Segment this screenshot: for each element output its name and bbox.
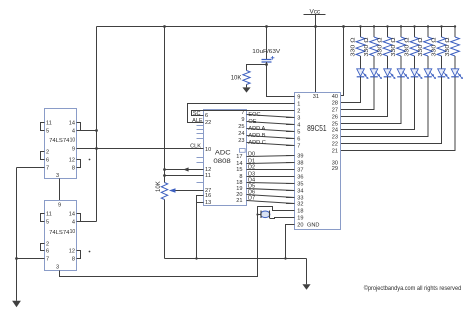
LED D6 xyxy=(424,69,436,79)
svg-text:19: 19 xyxy=(297,216,303,222)
wire D0: ADC to 89C51 pin 39 xyxy=(247,152,295,158)
wire rail to capacitor C1 xyxy=(265,25,268,59)
wire U2b pins 14/4 up to left loop vertical xyxy=(81,221,97,223)
svg-text:8: 8 xyxy=(72,166,75,172)
ground (below 10K reset resistor) xyxy=(242,85,250,93)
svg-text:11: 11 xyxy=(205,173,211,179)
wire U2b pin7 to ground xyxy=(15,257,44,260)
svg-text:4: 4 xyxy=(297,123,300,129)
svg-text:6: 6 xyxy=(297,137,300,143)
wire U1 pin7 to ground xyxy=(17,167,45,169)
svg-text:2: 2 xyxy=(46,242,49,248)
svg-text:14: 14 xyxy=(69,212,75,218)
wire ADD B: ADC to 89C51 pin 6 xyxy=(247,133,295,139)
power Vcc symbol xyxy=(304,9,326,16)
svg-text:10: 10 xyxy=(70,229,76,235)
wire CLK: U1 pin9 to ADC pin10 xyxy=(77,144,204,150)
svg-text:3: 3 xyxy=(297,116,300,122)
wire LED D6 to 89C51 pin 23 xyxy=(341,77,429,137)
svg-text:35: 35 xyxy=(297,182,303,188)
resistor R8 330 ohm xyxy=(445,37,460,57)
LED D8 xyxy=(451,69,463,79)
LED D7 xyxy=(438,69,450,79)
ADC U2 ADC0808 xyxy=(204,110,247,207)
svg-text:24: 24 xyxy=(238,131,244,137)
svg-text:10K: 10K xyxy=(231,76,242,82)
svg-text:22: 22 xyxy=(205,120,211,126)
wire 89C51 pin1 to ADC ALE (pin22) xyxy=(188,104,295,125)
wire U1 pins 14/4 to left loop vertical xyxy=(81,130,97,132)
svg-text:7: 7 xyxy=(46,257,49,263)
svg-text:74LS74: 74LS74 xyxy=(49,138,70,144)
svg-text:5: 5 xyxy=(297,130,300,136)
svg-text:10K: 10K xyxy=(156,181,162,192)
svg-text:4: 4 xyxy=(72,220,75,226)
svg-text:330 Ω: 330 Ω xyxy=(391,37,397,57)
resistor R9 10K xyxy=(231,71,250,85)
wire LED D8 to 89C51 pin 21 xyxy=(341,77,456,151)
svg-text:1: 1 xyxy=(297,102,300,108)
svg-text:©projectbandya.com all rights: ©projectbandya.com all rights reserved xyxy=(364,285,461,292)
svg-text:ADD B: ADD B xyxy=(248,133,265,139)
wire 89C51 pin19 to crystal right plate xyxy=(270,218,295,219)
svg-text:12: 12 xyxy=(69,249,75,255)
LED D1 xyxy=(357,69,369,79)
svg-text:GND: GND xyxy=(307,223,319,229)
wire LED D2 to 89C51 pin 27 xyxy=(341,77,375,110)
wire D4: ADC to 89C51 pin 35 xyxy=(247,178,295,184)
flip-flop U2b 74LS74 (lower) xyxy=(45,201,77,271)
svg-text:14: 14 xyxy=(69,121,75,127)
svg-text:36: 36 xyxy=(297,175,303,181)
wire ground rail xyxy=(165,257,307,259)
resistor R2 330 ohm xyxy=(364,37,379,57)
svg-text:330 Ω: 330 Ω xyxy=(364,37,370,57)
wire OE: ADC to 89C51 pin 4 xyxy=(247,119,295,125)
U1 pin brackets xyxy=(41,123,91,168)
wire resistor R6 to LED D6 xyxy=(427,56,429,69)
wire ADC pin11 to pot line xyxy=(163,174,203,177)
wire Vcc top rail xyxy=(97,26,456,28)
wire pot wiper arrow to ADC pin27 xyxy=(169,188,204,193)
svg-text:18: 18 xyxy=(297,209,303,215)
wire EOC: ADC to 89C51 pin 3 xyxy=(247,112,295,118)
wire rail to 89C51 pin 40 xyxy=(341,25,345,95)
wire ADC pin16 and pin13 to ground rail xyxy=(197,196,204,259)
wire ADD A: ADC to 89C51 pin 5 xyxy=(247,126,295,132)
svg-text:37: 37 xyxy=(297,168,303,174)
wire rail to resistor R4 column xyxy=(400,25,402,37)
svg-text:330 Ω: 330 Ω xyxy=(350,37,356,57)
wire left loop vertical (rail down to 74LS74s) xyxy=(95,27,98,222)
svg-text:10: 10 xyxy=(205,147,211,153)
wire U1 pin3 to U2 pin9 xyxy=(59,179,61,201)
svg-text:23: 23 xyxy=(332,135,338,141)
ground (bottom right) xyxy=(302,259,310,290)
svg-text:24: 24 xyxy=(332,128,338,134)
svg-text:SC: SC xyxy=(193,111,201,117)
svg-text:6: 6 xyxy=(46,249,49,255)
svg-text:29: 29 xyxy=(332,166,338,172)
svg-text:0808: 0808 xyxy=(213,158,231,165)
resistor R4 330 ohm xyxy=(391,37,406,57)
svg-text:CLK: CLK xyxy=(190,144,201,150)
svg-text:74LS74: 74LS74 xyxy=(49,230,70,236)
wire ADD C: ADC to 89C51 pin 7 xyxy=(247,140,295,146)
wire rail to resistor R7 column xyxy=(440,25,442,37)
wire D2: ADC to 89C51 pin 37 xyxy=(247,165,295,171)
svg-text:9: 9 xyxy=(72,147,75,153)
svg-text:D0: D0 xyxy=(248,152,255,158)
LED D2 xyxy=(370,69,382,79)
copyright text xyxy=(364,285,461,292)
svg-text:9: 9 xyxy=(241,117,244,123)
flip-flop U1 74LS74 (upper) xyxy=(45,109,77,180)
svg-text:31: 31 xyxy=(313,94,319,100)
svg-text:8: 8 xyxy=(72,257,75,263)
svg-text:21: 21 xyxy=(236,198,242,204)
svg-text:32: 32 xyxy=(297,202,303,208)
svg-text:15: 15 xyxy=(236,167,242,173)
wire rail to resistor R1 column xyxy=(359,25,361,37)
svg-text:9: 9 xyxy=(58,203,61,209)
89C51 left pin stubs xyxy=(286,97,295,225)
wire resistor R8 to LED D8 xyxy=(454,56,456,69)
crystal X1 xyxy=(261,211,270,219)
svg-text:16: 16 xyxy=(205,193,211,199)
svg-text:ADD A: ADD A xyxy=(248,126,265,132)
wire capacitor to 89C51 pin 9 (reset) xyxy=(265,62,294,97)
svg-text:27: 27 xyxy=(332,108,338,114)
wire 89C51 pin2 to ADC SC (pin6) xyxy=(192,111,295,117)
svg-text:20: 20 xyxy=(297,223,303,229)
resistor R1 330 ohm xyxy=(350,37,365,57)
svg-text:10: 10 xyxy=(70,137,76,143)
svg-text:26: 26 xyxy=(332,115,338,121)
svg-text:3: 3 xyxy=(56,173,59,179)
svg-text:34: 34 xyxy=(297,189,303,195)
wire rail to resistor R3 column xyxy=(386,25,388,37)
wire resistor R5 to LED D5 xyxy=(414,56,416,69)
wire resistor R4 to LED D4 xyxy=(400,56,402,69)
LED D4 xyxy=(397,69,409,79)
svg-text:17: 17 xyxy=(236,154,242,160)
svg-text:25: 25 xyxy=(238,124,244,130)
svg-text:5: 5 xyxy=(46,220,49,226)
svg-text:OE: OE xyxy=(248,119,256,125)
wire resistor R1 to LED D1 xyxy=(360,56,362,69)
wire rail to resistor R5 column xyxy=(413,25,415,37)
wire resistor R7 to LED D7 xyxy=(441,56,443,69)
svg-text:5: 5 xyxy=(46,129,49,135)
ADC0808 NC pin stubs (left) xyxy=(197,126,204,183)
wire resistor R3 to LED D3 xyxy=(387,56,389,69)
svg-text:ALE: ALE xyxy=(192,118,203,124)
LED D5 xyxy=(411,69,423,79)
svg-text:39: 39 xyxy=(297,154,303,160)
svg-text:11: 11 xyxy=(46,212,52,218)
svg-text:EOC: EOC xyxy=(248,112,260,118)
ADC0808 small blue stub box above D0 xyxy=(240,149,246,153)
wire D7: ADC to 89C51 pin 32 xyxy=(247,196,295,204)
svg-text:330 Ω: 330 Ω xyxy=(377,37,383,57)
svg-text:38: 38 xyxy=(297,161,303,167)
svg-text:330 Ω: 330 Ω xyxy=(418,37,424,57)
resistor R7 330 ohm xyxy=(431,37,446,57)
capacitor C1 10uF/63V xyxy=(252,49,280,62)
svg-text:330 Ω: 330 Ω xyxy=(431,37,437,57)
wire 89C51 pin20 GND to ground rail xyxy=(286,225,295,259)
wire rail to resistor R2 column xyxy=(373,25,375,37)
svg-text:10uF/63V: 10uF/63V xyxy=(252,49,280,55)
wire 89C51 pin18 around crystal down to U2b pin3 xyxy=(60,207,295,277)
svg-text:11: 11 xyxy=(46,121,52,127)
wire D1: ADC to 89C51 pin 38 xyxy=(247,159,295,165)
svg-text:7: 7 xyxy=(297,144,300,150)
wire LED D5 to 89C51 pin 24 xyxy=(341,77,415,130)
svg-text:22: 22 xyxy=(332,142,338,148)
wire crystal left plate to vertical xyxy=(256,213,261,215)
wire reset node to resistor R9 xyxy=(247,65,267,71)
wire rail to resistor R6 column xyxy=(427,25,429,37)
svg-text:D7: D7 xyxy=(248,196,255,202)
microcontroller U3 89C51 xyxy=(295,93,341,230)
svg-text:9: 9 xyxy=(297,95,300,101)
svg-text:7: 7 xyxy=(46,166,49,172)
svg-text:330 Ω: 330 Ω xyxy=(445,37,451,57)
wire pot bottom to ground rail xyxy=(164,200,166,259)
wire D5: ADC to 89C51 pin 34 xyxy=(247,184,295,191)
svg-text:6: 6 xyxy=(46,158,49,164)
svg-text:2: 2 xyxy=(297,109,300,115)
resistor R3 330 ohm xyxy=(377,37,392,57)
svg-text:12: 12 xyxy=(69,158,75,164)
svg-text:13: 13 xyxy=(205,200,211,206)
wire ADC pin12 to pot line xyxy=(163,167,203,171)
svg-text:3: 3 xyxy=(56,265,59,271)
wire LED D3 to 89C51 pin 26 xyxy=(341,77,388,117)
wire rail to resistor R8 column xyxy=(454,25,456,37)
wire LED D7 to 89C51 pin 22 xyxy=(341,77,442,144)
wire Vcc to 89C51 pin 31 xyxy=(314,15,317,93)
svg-text:23: 23 xyxy=(238,138,244,144)
svg-text:D2: D2 xyxy=(248,165,255,171)
wire pot branch vertical from rail xyxy=(163,25,166,182)
svg-text:6: 6 xyxy=(205,113,208,119)
resistor R5 330 ohm xyxy=(404,37,419,57)
ground (left, below U2b) xyxy=(12,168,21,308)
svg-text:28: 28 xyxy=(332,101,338,107)
wire resistor R2 to LED D2 xyxy=(373,56,375,69)
potentiometer RV1 10K xyxy=(156,181,168,199)
svg-text:4: 4 xyxy=(72,129,75,135)
wire LED D1 to 89C51 pin 28 xyxy=(341,77,361,103)
resistor R6 330 ohm xyxy=(418,37,433,57)
LED D3 xyxy=(384,69,396,79)
wire LED D4 to 89C51 pin 25 xyxy=(341,77,402,124)
wire D6: ADC to 89C51 pin 33 xyxy=(247,190,295,198)
svg-text:ADC: ADC xyxy=(215,150,231,157)
svg-text:2: 2 xyxy=(46,150,49,156)
svg-text:21: 21 xyxy=(332,149,338,155)
svg-text:ADD C: ADD C xyxy=(248,140,265,146)
U2b pin brackets xyxy=(41,214,91,259)
wire D3: ADC to 89C51 pin 36 xyxy=(247,172,295,178)
svg-text:89C51: 89C51 xyxy=(307,124,327,133)
svg-text:40: 40 xyxy=(332,94,338,100)
svg-text:330 Ω: 330 Ω xyxy=(404,37,410,57)
